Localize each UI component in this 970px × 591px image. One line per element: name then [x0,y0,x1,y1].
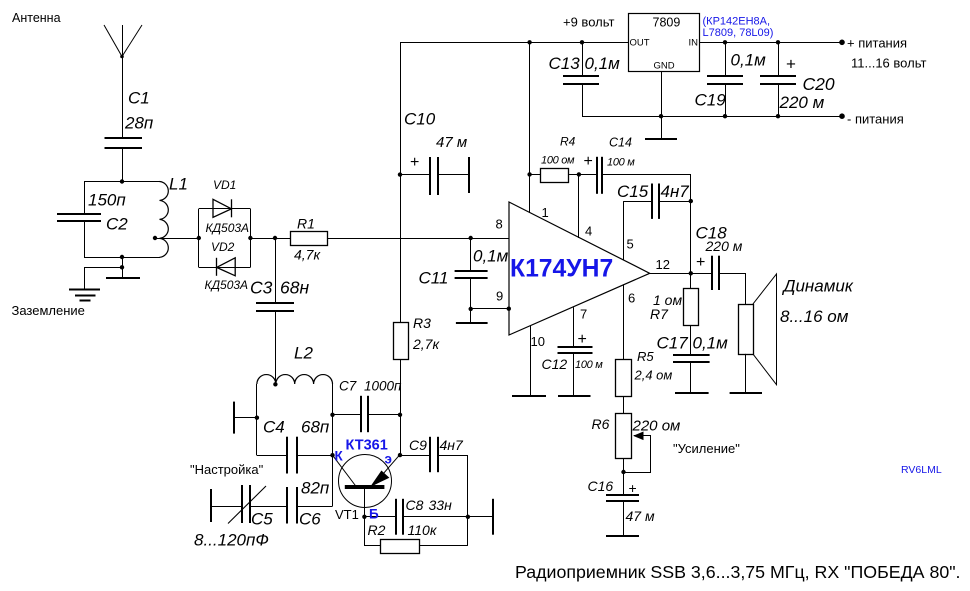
svg-text:C17: C17 [657,334,689,353]
svg-text:э: э [385,452,392,467]
wire R6 bottom [623,458,625,472]
wire C18 to speaker [720,274,746,305]
svg-text:150п: 150п [88,191,126,210]
node L2 ground stub [255,416,259,420]
capacitor C9 [430,437,438,472]
node C7 junction right [398,413,402,417]
capacitor C11 [455,238,488,309]
terminal + supply [839,40,845,46]
svg-text:C19: C19 [695,91,727,110]
svg-text:C10: C10 [404,110,436,129]
resistor R7 [684,273,699,355]
svg-text:L2: L2 [294,344,313,363]
svg-text:7809: 7809 [653,16,681,30]
wire R4 right lead [569,174,597,176]
svg-text:82п: 82п [301,479,330,498]
node tank bottom junction [120,255,124,259]
node base junction [362,515,366,519]
node C13 top [580,40,584,44]
svg-text:К174УН7: К174УН7 [510,256,613,283]
svg-text:2,4 ом: 2,4 ом [634,368,673,383]
svg-text:4: 4 [585,224,592,239]
svg-text:C14: C14 [609,136,632,150]
node tank top junction [120,179,124,183]
antenna symbol [104,25,142,58]
ground under C11 [456,309,488,324]
node diode block right [248,236,252,240]
svg-text:C8: C8 [406,497,424,513]
capacitor C18 [712,256,719,290]
svg-text:OUT: OUT [630,38,650,49]
resistor R3 [394,323,409,360]
svg-text:C16: C16 [588,478,614,494]
wire pin 9 [471,308,509,310]
voltage regulator U2 7809 box [629,14,700,72]
svg-text:Динамик: Динамик [782,277,854,296]
wire R5 to R6 [623,396,625,414]
svg-text:R6: R6 [592,416,610,432]
capacitor C6 [287,487,297,524]
svg-text:L7809, 78L09): L7809, 78L09) [703,27,774,39]
svg-text:0,1м: 0,1м [731,51,767,70]
ground under C17 [675,392,709,394]
capacitor C3 [256,238,294,384]
node L2 tap [273,382,277,386]
svg-text:+9 вольт: +9 вольт [563,15,614,30]
ground under pin 10 [512,395,546,397]
diode block frame [199,209,251,268]
svg-text:КТ361: КТ361 [346,438,388,454]
pin 4 wire [578,174,580,238]
svg-text:2,7к: 2,7к [412,336,440,352]
wire bootstrap column [690,201,692,273]
svg-text:Заземление: Заземление [12,303,85,318]
svg-text:(КР142ЕН8А,: (КР142ЕН8А, [703,16,771,28]
pin 10 wire [530,326,532,397]
svg-text:R3: R3 [413,315,431,331]
node C7 junction left [330,413,334,417]
wire R3 bottom [400,360,402,456]
wire C9 right lead [438,456,468,546]
svg-text:+ питания: + питания [847,36,907,51]
svg-text:0,1м: 0,1м [585,54,621,73]
ground under C12 [558,395,591,397]
svg-text:100 ом: 100 ом [541,155,575,167]
wire diode block to R1 [250,238,290,240]
node C19 top [723,40,727,44]
wire C1 to tank top [122,148,124,182]
terminal - supply [839,113,845,119]
wire C8 right lead [403,516,468,518]
wire C10 right lead [438,174,469,176]
ground under 7809 [645,138,677,140]
svg-text:R5: R5 [637,349,654,364]
svg-text:110к: 110к [408,522,438,538]
capacitor C13 [563,42,599,116]
wire C5 to C6 [250,506,287,508]
capacitor C14 [597,157,602,194]
capacitor C10 [430,157,438,195]
svg-text:8...16 ом: 8...16 ом [780,307,849,326]
wire C6 to collector column [298,506,333,508]
svg-text:47 м: 47 м [436,134,467,151]
node emitter junction [398,453,402,457]
inductor L1 [160,182,169,258]
svg-text:IN: IN [689,38,699,49]
node pin1 top [527,40,531,44]
chassis ground tap [106,267,140,279]
wire R1 to pin 8 [327,238,509,240]
svg-text:100 м: 100 м [575,359,603,371]
ground under C16 [606,535,639,537]
node L1 tap [153,236,157,240]
pin 7 wire [573,307,575,347]
capacitor C2 [57,182,101,258]
svg-text:7: 7 [580,307,587,322]
pin 6 wire [623,284,625,359]
ground bar right of C8 [492,499,494,535]
svg-text:100 м: 100 м [607,157,635,169]
ground under speaker [730,392,762,394]
node C11 bottom junction [469,307,473,311]
svg-text:C12: C12 [542,356,568,372]
wire C5 left [211,506,242,508]
variable capacitor C5 [228,485,266,524]
svg-text:C15: C15 [617,182,649,201]
svg-text:C2: C2 [106,215,128,234]
capacitor C7 [361,396,368,432]
svg-text:КД503А: КД503А [206,221,250,235]
svg-text:VD2: VD2 [211,240,235,254]
node C8 right junction [466,515,470,519]
pin 5 wire [623,201,625,260]
resistor R5 [616,360,632,397]
wire +9V column top [400,42,402,323]
node R4 right [577,172,581,176]
svg-text:C3: C3 [250,278,273,298]
wire base row [364,516,396,518]
resistor R1 [291,232,328,246]
svg-text:11...16 вольт: 11...16 вольт [851,56,926,71]
svg-text:220 ом: 220 ом [632,418,681,435]
capacitor C1 [105,138,143,148]
svg-text:0,1м: 0,1м [693,334,729,353]
svg-text:33н: 33н [429,497,453,513]
node pin 12 junction [689,271,693,275]
wire minus rail [582,116,842,118]
svg-text:Антенна: Антенна [12,11,61,25]
svg-text:C1: C1 [128,89,150,108]
capacitor C19 [707,42,743,116]
svg-text:68н: 68н [280,278,309,298]
node diode block left [197,236,201,240]
svg-text:+: + [410,154,419,171]
ground bar left of C5 [210,489,212,522]
svg-text:VD1: VD1 [213,178,236,192]
node C20 top [776,40,780,44]
wire C14 right lead [602,175,691,202]
wire GND pin [661,71,663,140]
svg-text:C7: C7 [339,379,357,394]
svg-text:8...120пФ: 8...120пФ [194,531,269,550]
svg-text:GND: GND [654,61,675,72]
transistor VT1 collector lead [333,455,357,487]
capacitor C8 [396,499,403,535]
node C3 tap [273,236,277,240]
wire tank bottom [84,257,160,259]
svg-text:6: 6 [628,291,635,306]
svg-text:220 м: 220 м [705,238,743,254]
wire to ground junction [122,257,124,267]
svg-text:0,1м: 0,1м [473,247,509,266]
svg-text:4н7: 4н7 [661,182,690,201]
svg-text:- питания: - питания [847,112,904,127]
node ground junction [120,265,124,269]
svg-text:5: 5 [627,237,634,252]
svg-text:R7: R7 [650,306,669,322]
node R4 left [527,172,531,176]
node pin 9 at triangle [507,307,511,311]
svg-text:"Настройка": "Настройка" [190,462,264,477]
potentiometer R6 [616,414,651,473]
wire R4 left lead [530,174,541,176]
svg-text:C5: C5 [251,510,273,529]
node C15 right [689,199,693,203]
svg-text:1: 1 [542,205,549,220]
svg-text:C9: C9 [409,437,427,453]
speaker [739,274,777,393]
svg-text:47 м: 47 м [626,508,655,524]
svg-text:C13: C13 [549,54,581,73]
wire to earth ground [85,268,123,291]
node C19 bottom [723,114,727,118]
svg-text:4,7к: 4,7к [294,247,321,263]
svg-text:+: + [786,55,796,74]
pin 1 wire [529,42,531,213]
transistor VT1 circle [339,455,392,508]
svg-text:C6: C6 [299,510,321,529]
svg-text:RV6LML: RV6LML [901,464,942,476]
wire C7 right lead [368,414,400,416]
svg-text:+: + [629,480,637,496]
svg-text:+: + [584,153,593,170]
wire antenna to C1 [122,25,124,139]
svg-text:"Усиление": "Усиление" [673,441,740,456]
node collector junction [330,453,334,457]
svg-text:68п: 68п [301,418,330,437]
svg-text:R2: R2 [368,522,386,538]
ground stub left of L2 [234,402,257,434]
capacitor C20 [760,42,796,116]
ground bar right of C10 [468,157,470,193]
capacitor C12 [558,347,593,397]
svg-text:28п: 28п [124,114,154,133]
wire to output bar [468,516,493,518]
svg-text:1000п: 1000п [364,379,402,394]
svg-text:C11: C11 [419,269,449,288]
wire to C4 [257,455,288,457]
capacitor C17 [673,355,710,393]
wire +9V top rail [400,42,628,44]
diode VD2 [217,258,236,276]
node R6 wiper junction [621,470,625,474]
wire C7 left lead [333,414,362,416]
svg-text:8: 8 [496,216,503,231]
wire C10 left lead [400,174,431,176]
svg-text:220 м: 220 м [779,93,825,112]
svg-text:C4: C4 [263,418,285,437]
svg-text:К: К [335,449,344,464]
svg-text:12: 12 [656,257,670,272]
svg-text:4н7: 4н7 [440,437,464,453]
transistor VT1 base bar [345,485,385,489]
node C11 top junction [469,236,473,240]
svg-text:L1: L1 [169,175,188,194]
svg-text:R1: R1 [297,216,315,232]
svg-text:Б: Б [369,507,379,522]
wire tank top [84,181,160,183]
svg-text:Радиоприемник SSB 3,6...3,75 М: Радиоприемник SSB 3,6...3,75 МГц, RX "ПО… [515,562,960,582]
transistor VT1 base lead [364,487,366,517]
svg-text:VT1: VT1 [335,507,359,522]
capacitor C4 [287,437,297,474]
wire C15 branch [624,201,653,203]
node C10 junction [398,172,402,176]
node GND junction [659,114,663,118]
wire C4 to collector node [298,455,333,457]
wire pin 12 [650,273,713,275]
transistor VT1 emitter lead with arrow [372,455,400,486]
wire L1 tap to diode block [155,238,199,240]
wire emitter row [400,455,431,457]
wire L2 right side [332,384,334,506]
svg-text:+: + [696,254,705,271]
svg-text:9: 9 [496,289,503,304]
wire IN rail [699,42,842,44]
capacitor C16 [606,472,639,537]
svg-text:КД503А: КД503А [205,278,249,292]
svg-text:10: 10 [531,334,545,349]
resistor R4 [541,169,569,183]
diode VD1 [213,199,232,217]
wire L2 left side [256,384,258,455]
capacitor C15 [652,184,659,219]
svg-text:C20: C20 [803,74,835,94]
svg-text:R4: R4 [560,135,576,149]
svg-text:+: + [578,331,587,348]
resistor R2 with leads [365,517,468,554]
op-amp U1 K174UN7 triangle [509,202,650,335]
inductor L2 [257,375,333,384]
wire C15 right lead [660,201,691,203]
node C20 bottom [776,114,780,118]
earth ground symbol [69,290,100,301]
